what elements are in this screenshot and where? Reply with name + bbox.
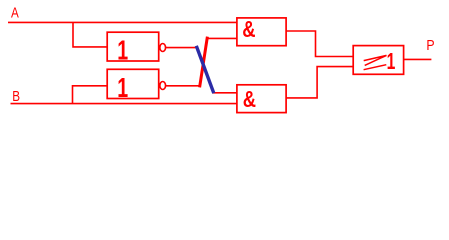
wire B branch to inverter U2 [73,86,108,104]
AND gate U3 box [237,18,286,46]
svg-text:P: P [426,37,434,53]
wire from U2 bubble [166,85,200,87]
OR gate U5 label [364,55,387,69]
wire B [11,103,238,105]
wire AND U3 output to OR U5 [286,31,354,57]
svg-text:&: & [242,17,255,42]
inverter U1 box [107,32,159,61]
inverter U1 output bubble [160,44,166,52]
wire into AND U3 lower input [207,37,238,39]
svg-text:1: 1 [117,35,128,66]
OR gate U5 box [353,46,403,75]
svg-text:A: A [11,4,19,21]
crossover wire red from U2 to AND U3 [200,37,208,88]
svg-text:B: B [12,88,20,105]
AND gate U4 box [237,85,286,113]
svg-text:1: 1 [387,49,396,75]
svg-text:1: 1 [117,72,128,103]
wire AND U4 output to OR U5 [286,67,354,98]
crossover wire blue from U1 to AND U4 [196,46,214,93]
svg-text:&: & [243,87,256,112]
wire from U1 bubble [166,47,197,49]
wire A [8,21,237,23]
inverter U2 box [107,69,159,98]
wire A branch to inverter U1 [73,22,108,47]
wire into AND U4 upper input [213,92,238,94]
inverter U2 output bubble [160,82,166,90]
wire P output [404,58,432,60]
